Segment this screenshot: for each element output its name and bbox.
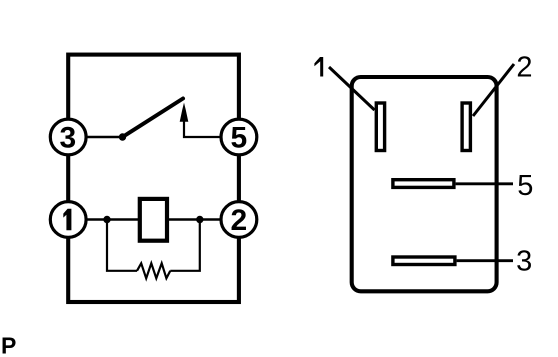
- junction node A: [103, 216, 110, 223]
- terminal circle 3: [50, 119, 86, 155]
- leader line pin 3: [457, 259, 513, 262]
- svg-text:2: 2: [516, 51, 532, 83]
- terminal circle 2: [221, 202, 257, 238]
- pin 2 slot: [462, 103, 470, 151]
- pin 3 slot: [393, 257, 455, 265]
- pin 5 slot: [393, 180, 454, 188]
- wire from arrow to terminal 5: [184, 121, 221, 138]
- leader line pin 5: [456, 182, 513, 185]
- leader line pin 2: [473, 64, 514, 116]
- svg-text:3: 3: [60, 122, 77, 155]
- svg-text:5: 5: [231, 122, 248, 155]
- label pin 1: [314, 57, 323, 77]
- wire parallel resistor branch: [107, 220, 137, 271]
- switch pivot junction: [119, 133, 126, 140]
- svg-text:3: 3: [516, 246, 532, 278]
- wire from terminal 3 to switch pivot: [86, 136, 123, 139]
- junction node B: [196, 216, 203, 223]
- relay coil K: [140, 199, 167, 241]
- switch SW1 blade: [123, 99, 184, 138]
- terminal circle 1: [50, 202, 86, 238]
- leader line pin 1: [329, 67, 375, 110]
- wire from terminal 1 to terminal 2: [86, 218, 221, 220]
- switch actuation arrow: [180, 103, 189, 122]
- relay internal schematic box: [68, 55, 239, 302]
- svg-text:2: 2: [231, 204, 248, 237]
- resistor R: [137, 263, 170, 278]
- svg-text:5: 5: [517, 170, 533, 202]
- pin 1 slot: [376, 103, 384, 151]
- svg-text:P: P: [1, 333, 16, 357]
- connector body outline: [352, 77, 497, 291]
- terminal circle 5: [221, 119, 257, 155]
- wire from resistor to node B: [170, 220, 200, 271]
